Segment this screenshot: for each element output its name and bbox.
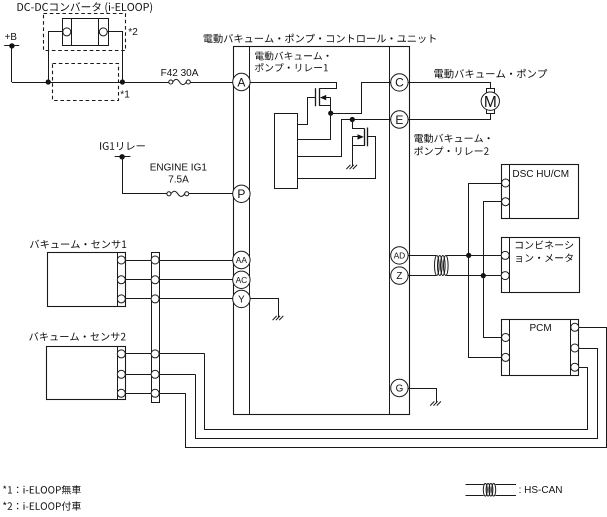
pin AA circle	[233, 251, 250, 268]
svg-text:AC: AC	[236, 275, 248, 285]
wire pin A to Q1 drain	[251, 83, 337, 89]
PCM left pin 2 circle	[502, 353, 510, 361]
svg-text:C: C	[395, 76, 404, 90]
node +B junction dot	[9, 43, 14, 48]
wire sensor1 pin1 to connector	[125, 260, 151, 262]
ground at pin G	[430, 401, 441, 405]
junction dot CAN high	[466, 253, 471, 258]
svg-text:Y: Y	[238, 294, 245, 305]
wire E node to Q2 drain	[353, 120, 365, 129]
wire Q2 gate to control block	[298, 137, 376, 179]
ground at Q2 source	[346, 165, 357, 169]
meter connector strip line	[509, 238, 511, 293]
DSC HU/CM box	[502, 165, 579, 219]
wire pin C to motor	[409, 83, 491, 89]
svg-text:G: G	[396, 384, 404, 395]
IG1 relay terminal tick	[115, 156, 131, 158]
wire Q1 output sense to control block	[298, 114, 331, 140]
pin C circle	[391, 74, 408, 91]
pin E circle	[391, 111, 408, 128]
transistor Q2 source stub	[352, 145, 364, 147]
junction node E dot	[350, 117, 355, 122]
transistor Q1 body stub with arrow	[320, 95, 331, 100]
wire pin G to ground	[409, 389, 437, 403]
transistor Q1 source stub	[319, 105, 331, 107]
sensor 1 strip line	[117, 252, 119, 306]
right connector strip inner line	[389, 47, 391, 415]
wire CAN low to meter	[447, 275, 502, 277]
pin AC circle	[233, 271, 250, 288]
svg-text:: HS-CAN: : HS-CAN	[519, 485, 563, 496]
wire Q1 output to pin C	[331, 83, 391, 114]
junction dot at DC-DC branch left	[46, 79, 51, 84]
wire main +B feed to fuse	[12, 82, 169, 84]
label vacuum sensor 2	[29, 332, 125, 341]
legend twisted pair coil	[483, 484, 495, 497]
PCM left strip line	[509, 319, 511, 375]
vacuum sensor 2 box	[47, 347, 126, 400]
relay pin circle right	[99, 28, 107, 36]
svg-text:AA: AA	[236, 255, 248, 265]
wire Q1 source/body to output node	[330, 98, 332, 114]
PCM right pin 2 circle	[571, 344, 579, 352]
pin Z circle	[391, 267, 408, 284]
svg-text:*2: *2	[128, 27, 138, 38]
sensor 2 pin circles	[117, 350, 125, 397]
wire pin Y to internal ground	[251, 299, 279, 318]
vacuum sensor 1 box	[48, 253, 126, 307]
wire CAN high down to PCM	[469, 256, 502, 358]
wire left branch up to relay	[49, 32, 63, 83]
transistor Q1 channel bar	[319, 88, 321, 106]
wire Q2 source/body to ground	[352, 137, 354, 167]
wire PCM pin R1 loop	[186, 328, 607, 448]
wire pin Z CAN low	[408, 275, 436, 277]
svg-text:ENGINE IG1: ENGINE IG1	[150, 163, 208, 174]
wire pin E to control block	[298, 120, 391, 157]
intermediate connector strip	[152, 253, 160, 403]
svg-text:7.5A: 7.5A	[168, 175, 189, 186]
PCM right pin 1 circle	[571, 323, 579, 331]
relay left strip line	[71, 18, 73, 45]
label electric vacuum pump relay 2 line2	[414, 146, 488, 155]
pin G circle	[391, 379, 408, 396]
label combination meter line1	[516, 241, 574, 250]
node +B terminal tick	[4, 45, 19, 47]
control unit U1 outline	[234, 47, 410, 415]
label electric vacuum pump	[434, 69, 547, 79]
wire CAN low down to PCM	[484, 276, 502, 338]
DSC connector strip line	[509, 164, 511, 218]
wire sensor2 pin3 to bus	[159, 393, 186, 395]
PCM box	[502, 320, 579, 376]
transistor Q2 body stub with arrow	[352, 134, 364, 139]
svg-text:F42 30A: F42 30A	[161, 68, 199, 79]
ground at pin Y	[273, 316, 284, 320]
DSC pin 2 circle	[502, 198, 510, 206]
meter pin 1 circle	[501, 251, 509, 259]
wire pin AD CAN high	[408, 255, 436, 257]
svg-text:+B: +B	[5, 32, 18, 43]
legend twisted pair left lines	[466, 485, 484, 496]
pin A circle	[233, 73, 250, 90]
label IG1 relay	[100, 142, 145, 150]
label electric vacuum pump relay 2 line1	[414, 134, 489, 143]
wire sensor2 pin2 to bus	[159, 374, 195, 376]
svg-text:M: M	[484, 94, 497, 111]
junction dot CAN low	[481, 273, 486, 278]
svg-text:A: A	[237, 75, 245, 89]
wire IG1 down and right to fuse	[123, 157, 168, 194]
relay right strip line	[98, 18, 100, 45]
wire sensor2 pin1 to bus	[159, 353, 205, 355]
label electric vacuum pump relay 1 line2	[255, 63, 328, 72]
fuse ENGINE IG1 7.5A	[167, 191, 233, 196]
wire DSC pin2 to CAN low	[484, 202, 502, 276]
transistor Q2 gate bar	[367, 128, 369, 147]
meter pin 2 circle	[501, 272, 509, 280]
transistor Q1 gate bar	[315, 88, 317, 106]
svg-text:PCM: PCM	[530, 323, 552, 334]
wire connector to pin AA	[159, 260, 233, 262]
motor M brush bottom	[487, 110, 495, 114]
wire PCM pin R3 loop	[205, 354, 588, 430]
control block inside unit	[275, 114, 298, 189]
combination meter box	[502, 238, 580, 293]
label DC-DC converter (i-ELOOP)	[18, 2, 153, 13]
fuse F42 30A	[169, 79, 233, 84]
DC-DC converter relay body	[63, 19, 109, 46]
wire connector to pin AC	[159, 279, 233, 281]
IG1 relay junction dot	[119, 154, 124, 159]
PCM right strip line	[570, 319, 572, 375]
PCM right pin 3 circle	[571, 363, 579, 371]
intermediate connector circles	[151, 256, 159, 264]
svg-text:Z: Z	[396, 271, 402, 282]
pin Y circle	[233, 290, 250, 307]
note *2 i-ELOOP equipped	[3, 501, 81, 510]
wire sensor2 pin2 to connector	[125, 374, 151, 376]
sensor 2 strip line	[117, 347, 119, 400]
svg-text:E: E	[395, 113, 403, 127]
label vacuum sensor 1	[30, 240, 126, 249]
legend twisted pair right lines	[495, 485, 516, 496]
wire DSC pin1 to CAN high	[469, 184, 502, 256]
wire Q1 gate to control block	[298, 98, 316, 125]
transistor Q2 channel bar	[364, 128, 366, 146]
note *1 i-ELOOP none	[3, 485, 81, 494]
wire +B down to main feed	[11, 46, 13, 82]
junction dot at DC-DC branch right	[120, 79, 125, 84]
wire sensor1 pin3 to connector	[125, 298, 151, 300]
sensor 1 pin circles	[117, 256, 125, 303]
motor M circle	[481, 92, 499, 110]
svg-text:P: P	[237, 187, 245, 201]
twisted pair HS-CAN	[435, 256, 449, 276]
PCM left pin 1 circle	[502, 334, 510, 342]
svg-text:*1: *1	[120, 89, 130, 100]
pin AD circle	[391, 247, 408, 264]
wire sensor1 pin2 to connector	[125, 279, 151, 281]
wire right branch up to relay	[108, 32, 123, 83]
wire sensor2 pin1 to connector	[125, 353, 151, 355]
label electric vacuum pump relay 1 line1	[255, 51, 329, 60]
wire motor to pin E	[409, 114, 491, 120]
junction node Q1 output dot	[328, 111, 333, 116]
DSC pin 1 circle	[502, 179, 510, 187]
wire CAN high to meter	[447, 255, 502, 257]
pin P circle	[233, 185, 250, 202]
relay pin circle left	[63, 28, 71, 36]
wire connector to pin Y	[159, 298, 233, 300]
motor M brush top	[487, 89, 495, 93]
dashed box *1 (without i-ELOOP)	[53, 64, 119, 101]
wire sensor2 pin3 to connector	[125, 393, 151, 395]
svg-text:AD: AD	[394, 250, 406, 260]
dashed box *2 (with i-ELOOP)	[44, 14, 126, 51]
wire PCM pin R2 loop	[196, 349, 598, 439]
label electric vacuum pump control unit	[204, 34, 436, 44]
svg-text:DSC HU/CM: DSC HU/CM	[512, 169, 569, 180]
left connector strip inner line	[249, 47, 251, 415]
label combination meter line2	[516, 254, 573, 263]
